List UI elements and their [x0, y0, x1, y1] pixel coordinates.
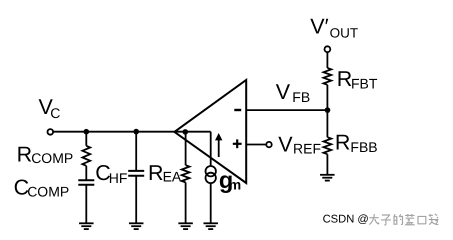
- svg-text:FBT: FBT: [351, 75, 378, 91]
- svg-text:FB: FB: [292, 89, 310, 105]
- svg-text:m: m: [229, 176, 241, 192]
- junction dot CHF branch: [133, 129, 139, 135]
- svg-text:V: V: [278, 133, 293, 157]
- op-amp U1 error amplifier triangle: [174, 80, 246, 183]
- svg-text:V′: V′: [310, 14, 328, 38]
- ground for CCOMP: [79, 223, 94, 229]
- svg-text:HF: HF: [109, 170, 128, 186]
- ground for REA: [178, 223, 193, 229]
- wire RCOMP to CCOMP: [85, 166, 87, 180]
- node VC input terminal circle: [48, 129, 54, 135]
- op-amp plus input symbol: [233, 139, 242, 148]
- watermark hanzi approximations: [369, 214, 438, 225]
- ground for RFBB: [320, 175, 335, 181]
- wire VFB net from op-amp minus input to divider tap: [246, 109, 327, 111]
- wire main horizontal from VC to gm branch: [53, 131, 211, 133]
- wire CHF branch top: [135, 132, 137, 170]
- svg-text:OUT: OUT: [330, 25, 359, 40]
- junction dot RCOMP branch: [84, 129, 90, 135]
- wire CHF to ground: [135, 176, 137, 223]
- svg-text:V: V: [276, 80, 291, 104]
- svg-text:R: R: [337, 67, 353, 91]
- svg-text:COMP: COMP: [31, 150, 73, 166]
- resistor RCOMP: [82, 146, 90, 166]
- resistor REA: [182, 165, 190, 182]
- svg-text:R: R: [17, 142, 33, 166]
- op-amp minus input symbol: [234, 109, 241, 111]
- junction dot VFB divider tap: [325, 107, 331, 113]
- wire VFB node to RFBB: [326, 110, 328, 137]
- resistor RFBB: [324, 137, 332, 154]
- wire REA branch top: [185, 132, 187, 166]
- svg-text:COMP: COMP: [27, 184, 69, 200]
- node VOUT terminal circle: [325, 46, 331, 52]
- gm current direction arrow: [218, 140, 220, 157]
- wire CCOMP to ground: [85, 185, 87, 223]
- ground for gm source: [203, 223, 218, 229]
- junction dot REA branch: [183, 129, 189, 135]
- wire RFBT to VFB node: [326, 85, 328, 110]
- svg-text:REF: REF: [293, 140, 321, 156]
- svg-text:R: R: [335, 131, 351, 155]
- svg-text:R: R: [148, 161, 164, 185]
- wire gm to ground: [210, 183, 212, 223]
- capacitor CCOMP: [78, 180, 94, 185]
- ground for CHF: [129, 223, 144, 229]
- wire VREF stub to op-amp plus input: [246, 144, 266, 146]
- wire VOUT terminal to RFBT: [326, 52, 328, 68]
- resistor RFBT: [324, 68, 332, 85]
- node VREF terminal circle: [266, 142, 271, 147]
- svg-text:C: C: [50, 105, 60, 121]
- current source gm symbol circles: [206, 166, 216, 176]
- wire RFBB to ground: [326, 154, 328, 175]
- capacitor CHF: [128, 171, 144, 176]
- svg-text:CSDN @: CSDN @: [323, 214, 369, 226]
- svg-text:EA: EA: [163, 169, 182, 185]
- wire gm source drop: [210, 132, 212, 167]
- wire REA to ground: [185, 182, 187, 223]
- svg-text:FBB: FBB: [350, 139, 377, 155]
- wire RCOMP branch top: [85, 132, 87, 146]
